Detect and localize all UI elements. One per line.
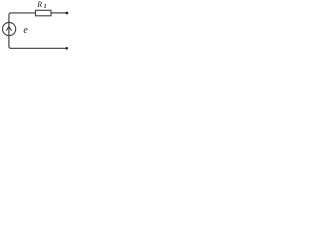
resistor R1 body bbox=[36, 10, 52, 16]
label R1 subscript bbox=[44, 4, 47, 10]
label e bbox=[23, 25, 27, 36]
EMF source e circle bbox=[3, 22, 16, 35]
wire: resistor output to top terminal bbox=[51, 12, 67, 14]
label R1 bbox=[37, 0, 42, 9]
node A (top terminal dot) bbox=[66, 12, 69, 15]
node B (bottom terminal dot) bbox=[65, 47, 68, 50]
wire: left vertical + bottom horizontal run bbox=[9, 13, 67, 48]
EMF arrow head bbox=[6, 27, 11, 31]
